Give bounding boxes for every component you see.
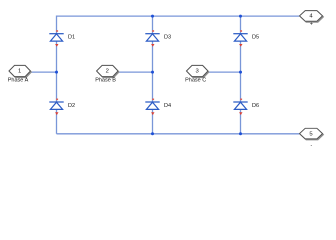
svg-text:D1: D1 — [68, 35, 75, 41]
wire: phase B branch lower segment — [152, 109, 154, 133]
wire: phase B branch middle segment — [152, 41, 154, 102]
junction node on bottom rail at phase B — [151, 132, 154, 135]
input port 2 Phase B — [97, 65, 120, 77]
wire: port 1 to phase A node — [31, 71, 57, 73]
diode D6 — [233, 99, 247, 116]
svg-text:+: + — [310, 22, 313, 28]
diode D2 — [49, 99, 63, 116]
diode D4 — [145, 99, 159, 116]
svg-text:D6: D6 — [252, 103, 259, 109]
wire: port 2 to phase B node — [118, 71, 152, 73]
wire: phase C branch upper segment — [240, 16, 242, 34]
diode D5 — [233, 30, 247, 47]
svg-text:1: 1 — [18, 69, 21, 75]
wire: phase B branch upper segment — [152, 16, 154, 34]
svg-text:D5: D5 — [252, 35, 259, 41]
diode D1 — [49, 30, 63, 47]
junction node on top rail at phase C — [239, 15, 242, 18]
input port 3 Phase C — [186, 65, 209, 77]
junction node B — [151, 71, 154, 74]
junction node A — [55, 71, 58, 74]
junction node on bottom rail at phase C — [239, 132, 242, 135]
svg-text:D2: D2 — [68, 103, 75, 109]
wire: phase A branch lower segment — [56, 109, 58, 133]
svg-text:D4: D4 — [164, 103, 171, 109]
wire: phase A branch upper segment — [56, 16, 58, 34]
svg-text:Phase A: Phase A — [8, 78, 29, 84]
svg-text:Phase C: Phase C — [185, 78, 206, 84]
diode D3 — [145, 30, 159, 47]
wire: phase C branch lower segment — [240, 109, 242, 133]
wire: phase A branch middle segment — [56, 41, 58, 102]
input port 1 Phase A — [9, 65, 32, 77]
wire: bottom DC- rail — [57, 133, 301, 135]
output port 4 DC plus — [300, 11, 324, 23]
svg-text:Phase B: Phase B — [95, 78, 116, 84]
svg-text:2: 2 — [106, 69, 109, 75]
wire: phase C branch middle segment — [240, 41, 242, 102]
svg-text:D3: D3 — [164, 35, 171, 41]
wire: port 3 to phase C node — [208, 71, 241, 73]
output port 5 DC minus — [300, 128, 324, 140]
svg-text:-: - — [311, 142, 313, 148]
wire: top DC+ rail — [57, 15, 300, 17]
junction node C — [239, 71, 242, 74]
junction node on top rail at phase B — [151, 15, 154, 18]
